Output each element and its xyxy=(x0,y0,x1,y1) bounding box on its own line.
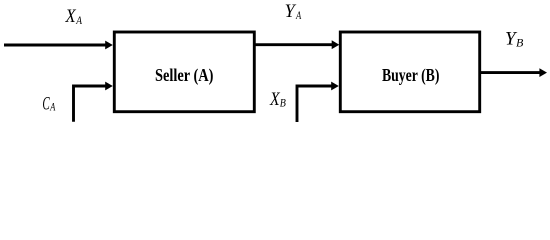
svg-text:B: B xyxy=(280,96,287,110)
svg-text:A: A xyxy=(49,100,55,114)
svg-text:X: X xyxy=(65,6,77,27)
svg-text:B: B xyxy=(516,36,524,50)
svg-text:Seller (A): Seller (A) xyxy=(155,65,214,86)
svg-text:C: C xyxy=(42,93,50,114)
svg-text:A: A xyxy=(295,8,301,22)
svg-text:A: A xyxy=(75,13,82,27)
svg-text:Buyer (B): Buyer (B) xyxy=(382,65,440,86)
